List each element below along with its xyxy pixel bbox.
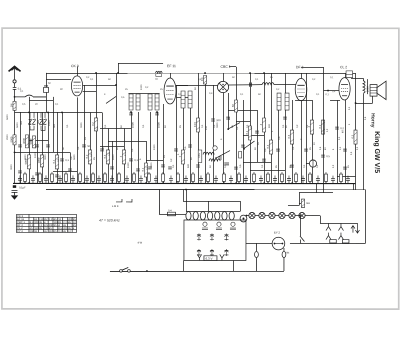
bypass cap CB39: [287, 176, 291, 184]
resistor R8: [37, 155, 44, 167]
wire y100 v5: [330, 100, 340, 102]
wire label DF2 lead: [301, 67, 324, 69]
capacitor C38: [343, 149, 347, 151]
svg-text:2000: 2000: [366, 86, 370, 92]
node j16: [263, 72, 265, 74]
svg-text:0,3: 0,3: [103, 154, 107, 158]
svg-text:0,3: 0,3: [350, 134, 354, 138]
wire v3 top lead: [223, 73, 225, 81]
svg-text:0000: 0000: [216, 122, 219, 128]
bypass cap CB29: [214, 176, 218, 184]
capacitor C18: [161, 165, 165, 167]
wire r26 stub: [299, 203, 301, 205]
bus resistor RB12: [91, 172, 94, 184]
coil L3b: [188, 91, 192, 108]
value labels extra: [10, 122, 359, 170]
svg-text:100: 100: [216, 118, 221, 122]
resistor R2: [9, 135, 16, 145]
wire v124: [123, 128, 125, 183]
oscillator switch blade 1: [244, 141, 255, 149]
wire heater bus: [46, 188, 365, 190]
resistor R25: [167, 208, 175, 215]
wire y152 left: [15, 151, 70, 153]
wire antenna down: [14, 83, 16, 88]
oscillator coil L8: [198, 150, 220, 163]
capacitor C1 antenna: [13, 87, 22, 91]
mains plug switch: [120, 267, 131, 272]
IF transformer shield top: [128, 92, 159, 94]
wire y192: [299, 192, 333, 194]
svg-text:5000: 5000: [9, 136, 13, 142]
node j23: [299, 215, 301, 217]
node j9: [115, 84, 117, 86]
oscillator switch blade 2: [216, 151, 230, 159]
node j21: [185, 189, 187, 191]
resistor R15: [193, 118, 200, 132]
svg-text:0000: 0000: [10, 164, 13, 170]
switch contact S1: [249, 212, 255, 218]
wire y201 feed: [183, 200, 240, 202]
svg-text:0,1: 0,1: [141, 167, 145, 171]
wire switch row: [246, 215, 320, 217]
resistor R13: [141, 163, 148, 177]
capacitor C3: [35, 145, 39, 147]
svg-text:0,1: 0,1: [245, 130, 249, 134]
wire v42: [41, 112, 43, 183]
wire ot core: [367, 79, 369, 94]
bus resistor RB40: [294, 172, 297, 184]
bus resistor RB32: [237, 172, 240, 184]
barretter winding L7: [186, 211, 240, 220]
wire y201 drop2: [239, 201, 241, 212]
wire v1 side: [82, 84, 96, 86]
wire y110 osc: [228, 110, 257, 112]
RF choke L9 on rail: [156, 71, 163, 76]
fuse B3: [255, 243, 259, 271]
bus resistor RB44: [324, 172, 327, 184]
node j15: [249, 72, 251, 74]
svg-text:5000: 5000: [6, 114, 9, 120]
svg-text:King GW V/5: King GW V/5: [373, 131, 380, 173]
bus resistor RB36: [266, 172, 269, 184]
capacitor C39: [343, 167, 347, 169]
svg-text:5000: 5000: [16, 122, 19, 128]
svg-text:2,2: 2,2: [58, 229, 62, 233]
wire v131: [130, 112, 132, 183]
wire v337: [336, 100, 338, 183]
node j18: [263, 182, 265, 184]
tap Y4: [220, 254, 224, 260]
resistor R3: [22, 135, 29, 148]
svg-text:3000: 3000: [22, 138, 26, 144]
capacitor Cosc1: [224, 163, 229, 165]
resistor R14: [178, 150, 185, 164]
svg-text:5000: 5000: [29, 138, 33, 144]
wire v213: [212, 85, 214, 183]
node g1 V5: [327, 90, 329, 92]
bus resistor RB20: [147, 172, 150, 184]
wire v320 down: [319, 216, 321, 224]
resistor R4: [29, 136, 36, 148]
bypass cap CB43: [316, 176, 320, 184]
capacitor C31: [290, 165, 294, 167]
tap Y3: [197, 254, 201, 260]
wire v285: [284, 73, 286, 183]
bypass cap CB45: [331, 176, 335, 184]
wire v278: [277, 110, 279, 183]
trim cap T1: [44, 86, 49, 93]
wire v353 stub: [352, 183, 354, 189]
wire g1 feed V5: [324, 90, 340, 92]
tube V5 envelope: [339, 78, 350, 100]
bus resistor RB26: [191, 172, 194, 184]
resistor R11: [103, 150, 110, 164]
bypass cap CB3: [31, 175, 35, 183]
wire speaker down1: [372, 96, 374, 103]
svg-text:500: 500: [268, 123, 271, 128]
bypass cap CB19: [139, 175, 143, 183]
svg-text:0,2: 0,2: [91, 122, 95, 126]
resistor R10: [85, 150, 92, 164]
voltage table: [16, 214, 76, 232]
svg-text:0000: 0000: [80, 122, 83, 128]
bus resistor RB18: [132, 172, 135, 184]
resistor R10b: [91, 118, 98, 131]
capacitor C13: [155, 113, 159, 115]
wire v299: [298, 193, 300, 206]
wire y146 mid: [100, 145, 124, 147]
svg-text:0,1: 0,1: [65, 158, 69, 162]
capacitor C10: [35, 173, 39, 175]
bus resistor RB14: [103, 172, 106, 184]
tube V1 envelope: [71, 76, 82, 96]
wire v84: [83, 85, 85, 183]
trimmer X4: [43, 119, 47, 125]
bypass cap CB9: [71, 175, 75, 183]
fuse B1: [326, 233, 336, 243]
oscillator trimmer circle: [213, 146, 217, 150]
capacitor C27: [255, 131, 259, 133]
bypass cap CB17: [125, 175, 129, 183]
bus resistor RB46: [339, 172, 342, 184]
bus resistor RB34: [252, 172, 255, 184]
wire y163 right: [306, 163, 309, 165]
svg-text:1000: 1000: [140, 84, 143, 90]
wire dial feed: [159, 213, 186, 215]
wire y79 left: [46, 78, 71, 80]
wire v2 g2: [176, 96, 190, 98]
wire v183: [182, 108, 184, 183]
capacitor C36: [321, 154, 330, 158]
coil L2a: [148, 94, 152, 110]
resistor R16: [200, 75, 207, 84]
dial lamp feed wire: [158, 189, 160, 214]
trimmer X2: [32, 119, 36, 125]
svg-text:1000: 1000: [157, 122, 161, 128]
node j6: [56, 182, 58, 184]
svg-text:0000: 0000: [44, 154, 47, 160]
bypass cap CB21: [154, 175, 158, 183]
capacitor C26: [241, 145, 245, 147]
svg-text:3000: 3000: [112, 154, 115, 160]
capacitor C16: [136, 169, 140, 171]
svg-text:mA: mA: [306, 201, 310, 205]
wire y140 left: [29, 139, 48, 141]
wire v228: [228, 93, 230, 130]
switch lever mid: [106, 96, 116, 103]
resistor R7: [24, 155, 31, 169]
capacitor C11: [55, 175, 59, 177]
wire v176: [175, 85, 177, 183]
wire y162 osc: [243, 162, 271, 164]
capacitor C33: [218, 157, 222, 159]
coil L1a: [129, 94, 133, 110]
electrolytic C34: [309, 160, 316, 167]
bus resistor RB10: [78, 172, 81, 184]
svg-text:1M: 1M: [9, 104, 13, 108]
capacitor C12: [129, 113, 133, 115]
wire winding feed: [185, 189, 187, 211]
capacitor C28: [262, 159, 266, 161]
wire v157: [156, 112, 158, 183]
capacitor C32: [234, 167, 238, 169]
wire mains lead: [110, 270, 246, 272]
wire v5 cathode: [344, 100, 346, 183]
heater tap arrows: [355, 223, 359, 233]
trimmer box outline: [184, 220, 246, 261]
svg-text:EY 2: EY 2: [274, 231, 280, 235]
svg-text:1000: 1000: [153, 144, 156, 150]
tube V2 envelope: [164, 78, 176, 104]
svg-text:5000: 5000: [73, 154, 76, 160]
wire v1 screen: [83, 90, 96, 92]
wire v306: [305, 73, 307, 183]
wire osc out: [274, 84, 296, 86]
wire v70: [69, 152, 71, 183]
trimmer T2: [197, 233, 201, 240]
trimmer T3: [210, 234, 214, 241]
padder trimmer P2: [216, 222, 222, 230]
bypass cap CB13: [97, 175, 101, 183]
node j17: [235, 182, 237, 184]
wire v323b: [322, 183, 324, 192]
capacitor C4: [46, 145, 50, 147]
wire box drop: [182, 260, 184, 271]
svg-text:0,4: 0,4: [168, 208, 172, 212]
heater voltage box: [204, 256, 217, 261]
wire v316: [315, 183, 317, 192]
resistor R26: [301, 199, 304, 208]
resistor R1: [9, 101, 16, 110]
wire v37: [36, 112, 38, 183]
wire v2 anode: [176, 84, 178, 86]
padder trimmer P3: [230, 222, 236, 230]
node j19: [291, 182, 293, 184]
svg-text:0,3: 0,3: [266, 144, 270, 148]
svg-text:Horny: Horny: [370, 113, 376, 128]
node j5: [28, 182, 30, 184]
resistor R17: [231, 100, 238, 112]
wire v323: [322, 67, 324, 183]
bus resistor RB22: [161, 172, 164, 184]
wire v90: [89, 112, 91, 183]
svg-text:0,15: 0,15: [198, 153, 201, 158]
capacitor C20: [188, 145, 192, 147]
svg-text:L M K: L M K: [112, 204, 119, 208]
wire speaker join: [356, 103, 373, 105]
svg-text:1000: 1000: [131, 122, 135, 128]
bus resistor RB28: [206, 172, 209, 184]
capacitor C17: [148, 167, 152, 169]
wire right drop: [364, 190, 366, 244]
svg-text:0,5: 0,5: [287, 134, 291, 138]
svg-text:0,1: 0,1: [52, 159, 56, 163]
coil L1b: [136, 94, 140, 110]
wire y135 osc: [243, 135, 264, 137]
wire v138: [137, 112, 139, 183]
capacitor C22: [168, 167, 172, 169]
node j4: [14, 152, 16, 154]
wire v96: [95, 73, 97, 183]
node j24: [146, 270, 148, 272]
antenna coupling ball: [13, 80, 16, 83]
svg-text:500: 500: [187, 163, 190, 168]
wire chassis bus: [13, 182, 355, 184]
bypass cap CB35: [259, 176, 263, 184]
resistor R23: [318, 120, 325, 134]
svg-text:3000: 3000: [24, 154, 27, 160]
wire v112: [111, 141, 113, 183]
wire v4 top lead: [301, 73, 303, 79]
resistor R20: [266, 140, 273, 154]
svg-text:CK 3: CK 3: [71, 64, 79, 68]
wire lamp left: [246, 243, 272, 245]
trimmer X1: [28, 119, 32, 125]
svg-text:CY 2: CY 2: [17, 229, 23, 233]
wire v5 top lead: [345, 73, 347, 78]
node osc1: [215, 157, 217, 159]
wire v355: [354, 73, 356, 189]
svg-text:300: 300: [20, 120, 23, 125]
bus resistor RB8: [64, 172, 67, 184]
wire v3 cathode: [222, 93, 224, 184]
wire v146: [145, 141, 147, 183]
wire y176 right: [337, 176, 356, 178]
capacitor C14: [110, 167, 114, 169]
wire mixer out: [229, 84, 262, 86]
ground main: [11, 185, 18, 199]
wire v205: [204, 84, 206, 183]
resistor R12: [119, 150, 126, 164]
wire v198: [197, 73, 199, 183]
node j22: [246, 215, 248, 217]
svg-text:4 W: 4 W: [137, 240, 142, 244]
wire y160 mid: [146, 159, 163, 161]
svg-text:1000: 1000: [48, 120, 51, 126]
wire v163: [162, 104, 164, 183]
wire v2 top lead: [170, 73, 172, 78]
wire grid cap line: [118, 62, 163, 64]
wire ot top: [351, 78, 363, 80]
switch contact S5: [289, 212, 295, 218]
capacitor C9: [18, 171, 22, 173]
trimmer T5: [197, 249, 201, 256]
wire v250: [249, 73, 251, 183]
bypass cap CB47: [346, 176, 350, 184]
wire antenna to junction: [13, 89, 15, 183]
value labels scatter: [6, 76, 367, 170]
wire v150: [150, 112, 152, 160]
svg-text:0,1: 0,1: [134, 158, 138, 162]
coil L3a: [181, 91, 185, 108]
trimmer T6: [210, 249, 214, 256]
node grid cap: [117, 72, 119, 74]
wire v77 tube1 cathode: [76, 97, 78, 183]
wire y85 mid: [96, 84, 116, 86]
wire v243: [242, 100, 244, 183]
wire y171 left: [53, 170, 77, 172]
bypass cap CB37: [273, 176, 277, 184]
wire v2 out: [176, 84, 188, 86]
svg-text:0,1μF: 0,1μF: [19, 185, 26, 189]
wire v1 anode to rail: [84, 84, 86, 86]
bus resistor RB24: [176, 172, 179, 184]
fuse B4: [282, 248, 286, 271]
tube V3 envelope: [217, 81, 228, 92]
capacitor C25: [226, 117, 230, 119]
wire y170 osc: [250, 170, 285, 172]
node antenna tap: [14, 96, 16, 98]
capacitor C19: [174, 149, 178, 151]
wire v312: [311, 100, 313, 183]
svg-text:47 = 520 kHz: 47 = 520 kHz: [99, 218, 120, 222]
node j12: [123, 182, 125, 184]
resistor R19: [259, 118, 266, 132]
pilot lamp EY: [272, 237, 285, 250]
svg-text:500: 500: [53, 123, 56, 128]
voltage table text: [17, 214, 76, 233]
bypass cap CB31: [229, 176, 233, 184]
node j10: [130, 111, 132, 113]
wire y201 riser: [182, 189, 184, 201]
svg-text:2000: 2000: [6, 134, 9, 140]
svg-text:0000: 0000: [150, 162, 153, 168]
svg-text:6,3 V: 6,3 V: [205, 257, 212, 261]
grid cap box V5: [346, 71, 353, 78]
capacitor C15: [129, 158, 138, 162]
wire grid line left: [15, 111, 102, 113]
wire v48: [47, 112, 49, 183]
capacitor C6: [68, 169, 72, 171]
wire top supply rail: [46, 72, 355, 74]
capacitor C2: [18, 145, 22, 147]
wave switch indicator: [112, 199, 132, 208]
capacitor C23: [250, 83, 252, 87]
coil L2b: [155, 94, 159, 110]
bus resistor RB6: [50, 172, 53, 184]
capacitor C7: [82, 144, 90, 148]
heater tap Y1: [326, 223, 331, 231]
wire v53: [53, 97, 55, 152]
node osc3: [227, 128, 229, 130]
wire v20: [19, 112, 21, 183]
capacitor C30: [283, 117, 287, 119]
wire mains right: [246, 271, 284, 273]
bypass cap CB33: [244, 176, 248, 184]
svg-text:0,5: 0,5: [326, 154, 330, 158]
capacitor C29: [276, 149, 280, 151]
trimmer T4: [224, 234, 228, 241]
